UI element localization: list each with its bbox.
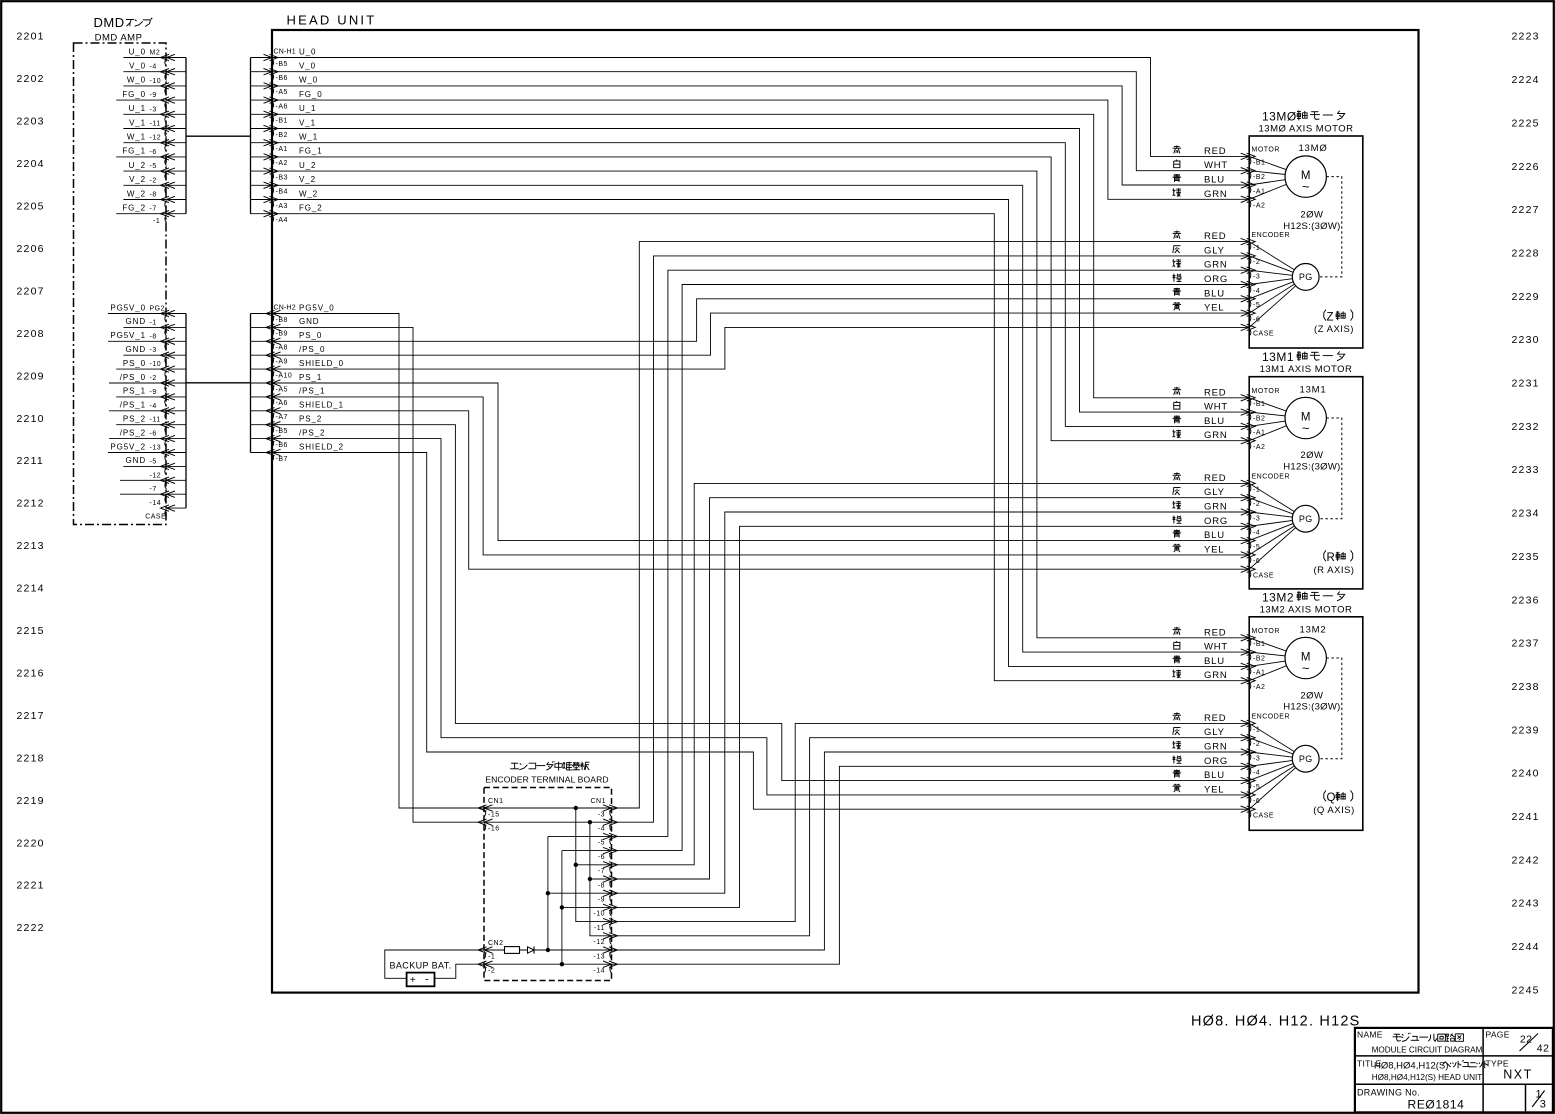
svg-text:-12: -12	[593, 939, 605, 946]
svg-text:FG_0: FG_0	[122, 90, 146, 99]
svg-text:-1: -1	[153, 218, 160, 225]
svg-text:-: -	[425, 973, 429, 985]
wire colour labels MOTOR 13M2	[1173, 627, 1229, 681]
svg-text:H12S:(3ØW): H12S:(3ØW)	[1283, 462, 1340, 473]
wire terminal board CN1-4 to 13M0 encoder -2 GLY	[612, 256, 1250, 822]
wire terminal board CN1-5 to 13M0 encoder -3 GRN	[612, 270, 1250, 836]
svg-text:-3: -3	[1253, 755, 1260, 762]
svg-text:-B1: -B1	[1253, 641, 1265, 648]
svg-text:U_1: U_1	[299, 104, 316, 113]
wire FG_2 CN-H1 to 13M2 motor	[272, 214, 1249, 681]
svg-text:-A6: -A6	[276, 103, 288, 110]
svg-text:FG_2: FG_2	[122, 204, 146, 213]
svg-text:-B1: -B1	[1253, 401, 1265, 408]
svg-text:ENCODER: ENCODER	[1252, 714, 1291, 721]
svg-text:-1: -1	[150, 319, 157, 326]
dashed link M to PG 13M2	[1319, 658, 1342, 759]
svg-text:RED: RED	[1204, 627, 1226, 638]
svg-text:/PS_1: /PS_1	[120, 401, 146, 410]
title block table	[1355, 1028, 1553, 1113]
svg-text:-B4: -B4	[276, 189, 288, 196]
wire /PS_2 CN-H2 to 13M2 encoder -6 YEL	[272, 439, 1249, 795]
svg-text:-A2: -A2	[1253, 684, 1265, 691]
connector MOTOR pins 13M1	[1241, 388, 1280, 451]
svg-text:MODULE CIRCUIT DIAGRAM: MODULE CIRCUIT DIAGRAM	[1372, 1046, 1483, 1055]
svg-text:/PS_1: /PS_1	[299, 387, 325, 396]
wire PS_2 CN-H2 to 13M2 encoder -5 BLU	[272, 425, 1249, 781]
svg-text:-3: -3	[150, 347, 157, 354]
svg-text:-6: -6	[598, 854, 605, 861]
svg-text:WHT: WHT	[1204, 160, 1228, 171]
wire W_0 CN-H1 to 13M0 motor	[272, 86, 1249, 185]
svg-text:(Q AXIS): (Q AXIS)	[1313, 805, 1354, 816]
svg-text:-5: -5	[598, 840, 605, 847]
connector MOTOR pins 13M2	[1241, 628, 1280, 691]
svg-text:CASE: CASE	[145, 513, 166, 520]
axis label R AXIS	[1314, 550, 1355, 576]
svg-text:2221: 2221	[17, 880, 45, 892]
svg-text:2212: 2212	[17, 498, 45, 510]
svg-text:V_0: V_0	[129, 62, 146, 71]
connector ENCODER pins 13M2	[1241, 714, 1290, 820]
wire colour labels MOTOR 13M1	[1173, 387, 1229, 441]
motor unit 13M2 (Q AXIS)	[1249, 590, 1363, 830]
HEAD UNIT enclosure	[272, 13, 1419, 993]
svg-text:-A1: -A1	[1253, 188, 1265, 195]
svg-text:2213: 2213	[17, 540, 45, 552]
svg-text:-B2: -B2	[1253, 415, 1265, 422]
wire /PS_1 CN-H2 to 13M1 encoder -6 YEL	[272, 397, 1249, 555]
svg-text:-4: -4	[1253, 770, 1260, 777]
svg-text:2243: 2243	[1512, 898, 1540, 910]
svg-text:YEL: YEL	[1204, 784, 1224, 795]
svg-text:W_2: W_2	[299, 189, 318, 198]
wire W_2 CN-H1 to 13M2 motor	[272, 200, 1249, 667]
svg-text:V_0: V_0	[299, 62, 316, 71]
svg-text:U_2: U_2	[129, 161, 146, 170]
svg-text:GRN: GRN	[1204, 670, 1228, 681]
terminal board internal bus PG5V (-15 to -3,-7,-11)	[484, 806, 612, 922]
svg-text:-A1: -A1	[1253, 670, 1265, 677]
svg-text:2207: 2207	[17, 285, 45, 297]
svg-text:-8: -8	[150, 192, 157, 199]
wire colour labels MOTOR 13M0	[1173, 145, 1229, 199]
svg-text:PG: PG	[1299, 514, 1313, 524]
svg-text:U_0: U_0	[299, 47, 316, 56]
svg-text:PG5V_0: PG5V_0	[299, 303, 335, 312]
svg-text:-10: -10	[150, 78, 162, 85]
wire battery+ to CN2-1	[385, 950, 484, 978]
motor winding circle 13M1 (M~)	[1249, 384, 1326, 440]
svg-text:-2: -2	[150, 375, 157, 382]
svg-text:-9: -9	[150, 389, 157, 396]
svg-text:2223: 2223	[1512, 31, 1540, 43]
svg-text:SHIELD_1: SHIELD_1	[299, 401, 344, 410]
resistor R on battery line	[505, 947, 520, 954]
wire /PS_0 CN-H2 to 13M0 encoder -6 YEL	[272, 313, 1249, 355]
wire terminal board CN1-10 to 13M1 encoder -4 ORG	[612, 526, 1250, 907]
svg-text:-6: -6	[150, 149, 157, 156]
svg-text:MOTOR: MOTOR	[1252, 628, 1280, 635]
svg-text:YEL: YEL	[1204, 544, 1224, 555]
axis label Z AXIS	[1314, 310, 1354, 336]
wire SHIELD_2 CN-H2 to 13M2 encoder CASE	[272, 453, 1249, 810]
svg-text:GLY: GLY	[1204, 245, 1225, 256]
wire PS_0 CN-H2 to 13M0 encoder -5 BLU	[272, 299, 1249, 342]
svg-text:-A4: -A4	[276, 217, 288, 224]
svg-text:-3: -3	[598, 811, 605, 818]
svg-text:2245: 2245	[1512, 984, 1540, 996]
svg-text:-2: -2	[1253, 501, 1260, 508]
svg-text:/PS_2: /PS_2	[299, 428, 325, 437]
svg-text:PG5V_0: PG5V_0	[110, 303, 146, 312]
title block TITLE cell	[1357, 1059, 1488, 1083]
svg-text:CN-H1: CN-H1	[274, 48, 296, 55]
svg-text:CN1: CN1	[590, 798, 606, 805]
svg-text:-3: -3	[1253, 515, 1260, 522]
svg-text:-6: -6	[1253, 798, 1260, 805]
svg-text:2203: 2203	[17, 116, 45, 128]
svg-text:~: ~	[1302, 421, 1310, 436]
connector CN-H2 on HEAD UNIT	[251, 303, 345, 463]
model list label H08 H04 H12 H12S	[1191, 1014, 1360, 1030]
svg-text:2226: 2226	[1512, 161, 1540, 173]
svg-text:-12: -12	[150, 135, 162, 142]
svg-text:-11: -11	[594, 925, 605, 932]
svg-text:RED: RED	[1204, 473, 1226, 484]
svg-text:2242: 2242	[1512, 854, 1540, 866]
diode D on battery line	[528, 946, 535, 953]
svg-text:2208: 2208	[17, 328, 45, 340]
svg-text:WHT: WHT	[1204, 402, 1228, 413]
terminal board connector CN2 pins -1 -2	[478, 940, 504, 974]
svg-text:BLU: BLU	[1204, 530, 1225, 541]
svg-text:-4: -4	[598, 826, 605, 833]
svg-text:-6: -6	[1253, 558, 1260, 565]
svg-text:PG: PG	[1299, 754, 1313, 764]
svg-text:SHIELD_0: SHIELD_0	[299, 359, 344, 368]
svg-text:2233: 2233	[1512, 464, 1540, 476]
svg-text:3: 3	[1540, 1099, 1546, 1111]
svg-text:ORG: ORG	[1204, 274, 1228, 285]
svg-text:-13: -13	[150, 445, 162, 452]
svg-text:GRN: GRN	[1204, 502, 1228, 513]
svg-text:(R AXIS): (R AXIS)	[1314, 565, 1355, 576]
title block DRAWING No cell	[1357, 1088, 1464, 1112]
wire V_1 CN-H1 to 13M1 motor	[272, 129, 1249, 413]
svg-text:PG2: PG2	[150, 306, 166, 313]
svg-text:YEL: YEL	[1204, 303, 1224, 314]
svg-text:GND: GND	[299, 317, 319, 326]
svg-text:2209: 2209	[17, 370, 45, 382]
svg-text:DMD: DMD	[94, 15, 125, 30]
encoder PG circle 13M1	[1249, 483, 1319, 569]
svg-text:2211: 2211	[17, 455, 44, 467]
svg-text:H12S:(3ØW): H12S:(3ØW)	[1283, 702, 1340, 713]
wire FG_1 CN-H1 to 13M1 motor	[272, 157, 1249, 441]
wire terminal board CN1-11 to 13M2 encoder -1 RED	[612, 723, 1250, 921]
svg-text:13M1: 13M1	[1300, 384, 1327, 395]
axis label Q AXIS	[1313, 790, 1354, 816]
svg-text:13MØ: 13MØ	[1298, 143, 1327, 154]
svg-text:-5: -5	[1253, 302, 1260, 309]
svg-text:-A6: -A6	[276, 400, 288, 407]
svg-text:HØ8,HØ4,H12(S): HØ8,HØ4,H12(S)	[1374, 1061, 1448, 1072]
svg-text:13M2 AXIS MOTOR: 13M2 AXIS MOTOR	[1260, 604, 1353, 615]
svg-text:BACKUP BAT.: BACKUP BAT.	[390, 960, 452, 970]
svg-text:H12S:(3ØW): H12S:(3ØW)	[1283, 221, 1340, 232]
svg-text:-8: -8	[598, 882, 605, 889]
svg-text:22: 22	[1520, 1034, 1533, 1046]
svg-text:-B2: -B2	[1253, 655, 1265, 662]
svg-text:-B6: -B6	[276, 75, 288, 82]
svg-text:-B5: -B5	[276, 428, 288, 435]
svg-text:CN2: CN2	[488, 940, 504, 947]
svg-text:PS_2: PS_2	[123, 415, 146, 424]
svg-text:13M2: 13M2	[1262, 590, 1294, 604]
backup battery BACKUP BAT.	[390, 960, 452, 986]
svg-text:DMD AMP: DMD AMP	[95, 33, 143, 44]
svg-text:-A10: -A10	[276, 372, 293, 379]
svg-text:-15: -15	[488, 811, 500, 818]
svg-text:2202: 2202	[17, 73, 45, 85]
svg-text:-12: -12	[150, 472, 162, 479]
svg-text:2235: 2235	[1512, 551, 1540, 563]
motor winding circle 13M0 (M~)	[1249, 143, 1327, 199]
svg-text:PAGE: PAGE	[1486, 1030, 1510, 1040]
terminal board CN2-1 line with resistor and diode to -13	[484, 949, 612, 951]
svg-text:-A9: -A9	[276, 359, 288, 366]
svg-text:BLU: BLU	[1204, 175, 1225, 186]
title block sheet number cell	[1532, 1089, 1546, 1111]
svg-text:-1: -1	[488, 953, 495, 960]
wire U_2 CN-H1 to 13M2 motor	[272, 171, 1249, 638]
svg-text:-B2: -B2	[276, 132, 288, 139]
cable bundle PG2 to CN-H2	[186, 314, 251, 509]
svg-text:-7: -7	[598, 868, 605, 875]
wire PS_1 CN-H2 to 13M1 encoder -5 BLU	[272, 383, 1249, 541]
title block PAGE cell	[1486, 1030, 1550, 1055]
wire terminal board CN1-12 to 13M2 encoder -2 GLY	[612, 738, 1250, 936]
title block TYPE cell	[1486, 1059, 1533, 1082]
svg-text:-A2: -A2	[276, 160, 288, 167]
wire battery- to CN2-2	[435, 964, 485, 978]
svg-text:2227: 2227	[1512, 204, 1540, 216]
title block NAME cell	[1357, 1030, 1483, 1055]
connector M2 on DMD AMP	[116, 47, 186, 225]
svg-text:-4: -4	[1253, 288, 1260, 295]
svg-text:-9: -9	[150, 92, 157, 99]
motor unit 13M0 (Z AXIS)	[1249, 110, 1363, 349]
svg-text:GLY: GLY	[1204, 487, 1225, 498]
wire colour labels ENCODER 13M2	[1173, 712, 1229, 795]
svg-text:13MØ AXIS MOTOR: 13MØ AXIS MOTOR	[1259, 124, 1354, 135]
svg-text:2214: 2214	[17, 583, 45, 595]
svg-text:/PS_0: /PS_0	[120, 373, 146, 382]
wire terminal board CN1-14 to 13M2 encoder -4 ORG	[612, 766, 1250, 964]
connector ENCODER pins 13M1	[1241, 474, 1290, 580]
svg-text:-B6: -B6	[276, 442, 288, 449]
svg-text:GRN: GRN	[1204, 189, 1228, 200]
svg-text:2224: 2224	[1512, 74, 1540, 86]
svg-text:2232: 2232	[1512, 421, 1540, 433]
connector MOTOR pins 13M0	[1241, 147, 1280, 210]
svg-text:Z: Z	[1327, 311, 1334, 323]
svg-text:2225: 2225	[1512, 117, 1540, 129]
svg-text:BLU: BLU	[1204, 288, 1225, 299]
svg-text:CASE: CASE	[1253, 573, 1274, 580]
motor winding circle 13M2 (M~)	[1249, 624, 1326, 680]
svg-text:-1: -1	[1253, 245, 1260, 252]
svg-text:BLU: BLU	[1204, 770, 1225, 781]
svg-text:2218: 2218	[17, 752, 45, 764]
svg-text:13M1 AXIS MOTOR: 13M1 AXIS MOTOR	[1260, 364, 1353, 375]
svg-text:-B1: -B1	[276, 118, 288, 125]
svg-text:2238: 2238	[1512, 681, 1540, 693]
svg-text:-9: -9	[598, 897, 605, 904]
svg-text:(Z AXIS): (Z AXIS)	[1314, 324, 1354, 335]
svg-text:ORG: ORG	[1204, 756, 1228, 767]
svg-text:PS_0: PS_0	[123, 359, 146, 368]
encoder PG circle 13M0	[1249, 242, 1319, 328]
svg-text:2234: 2234	[1512, 508, 1540, 520]
svg-text:U_1: U_1	[129, 104, 146, 113]
svg-text:-10: -10	[150, 361, 162, 368]
svg-text:-16: -16	[488, 826, 500, 833]
svg-text:CN-H2: CN-H2	[274, 304, 296, 311]
svg-text:-7: -7	[150, 486, 157, 493]
svg-text:-6: -6	[150, 431, 157, 438]
rating label 13M0	[1283, 210, 1340, 232]
svg-text:-B2: -B2	[1253, 174, 1265, 181]
svg-text:BLU: BLU	[1204, 416, 1225, 427]
svg-text:MOTOR: MOTOR	[1252, 147, 1280, 154]
svg-text:2ØW: 2ØW	[1300, 690, 1323, 701]
wire PG5V_0 CN-H2 to terminal board CN1-15	[272, 314, 484, 809]
svg-text:PS_1: PS_1	[123, 387, 146, 396]
svg-text:2236: 2236	[1512, 594, 1540, 606]
svg-text:V_1: V_1	[299, 118, 316, 127]
svg-text:PG5V_1: PG5V_1	[110, 331, 146, 340]
terminal board internal bus BAT+ (CN2-1 to -5,-9,-13)	[546, 836, 612, 952]
svg-text:GLY: GLY	[1204, 727, 1225, 738]
svg-text:-B3: -B3	[276, 174, 288, 181]
svg-text:-4: -4	[1253, 530, 1260, 537]
svg-text:-B5: -B5	[276, 61, 288, 68]
svg-text:GND: GND	[126, 317, 146, 326]
svg-text:HØ8. HØ4. H12. H12S: HØ8. HØ4. H12. H12S	[1191, 1014, 1360, 1030]
svg-text:-A7: -A7	[276, 414, 288, 421]
svg-text:V_2: V_2	[129, 175, 146, 184]
svg-text:W_0: W_0	[127, 76, 146, 85]
svg-text:2220: 2220	[17, 837, 45, 849]
svg-text:-2: -2	[488, 968, 495, 975]
wire terminal board CN1-3 to 13M0 encoder -1 RED	[612, 242, 1250, 808]
svg-text:2244: 2244	[1512, 941, 1540, 953]
svg-text:-2: -2	[150, 177, 157, 184]
svg-text:NXT: NXT	[1503, 1068, 1533, 1082]
svg-text:-14: -14	[593, 968, 605, 975]
svg-text:CASE: CASE	[1253, 331, 1274, 338]
svg-text:-B9: -B9	[276, 331, 288, 338]
svg-text:RED: RED	[1204, 231, 1226, 242]
wire V_2 CN-H1 to 13M2 motor	[272, 185, 1249, 652]
connector ENCODER pins 13M0	[1241, 232, 1290, 338]
svg-text:-B1: -B1	[1253, 160, 1265, 167]
wire V_0 CN-H1 to 13M0 motor	[272, 72, 1249, 171]
svg-text:PS_2: PS_2	[299, 415, 322, 424]
svg-text:-A1: -A1	[276, 146, 288, 153]
svg-text:-6: -6	[1253, 316, 1260, 323]
svg-text:REØ1814: REØ1814	[1408, 1098, 1465, 1112]
svg-text:42: 42	[1537, 1043, 1550, 1055]
svg-text:CN1: CN1	[488, 798, 504, 805]
svg-text:FG_1: FG_1	[299, 147, 323, 156]
svg-text:-4: -4	[150, 403, 157, 410]
svg-text:-4: -4	[150, 64, 157, 71]
svg-text:R: R	[1327, 552, 1335, 564]
svg-text:FG_2: FG_2	[299, 204, 323, 213]
svg-text:2222: 2222	[17, 922, 45, 934]
svg-text:2217: 2217	[17, 710, 45, 722]
encoder terminal board enclosure	[484, 761, 612, 980]
encoder PG circle 13M2	[1249, 723, 1319, 809]
svg-text:-3: -3	[150, 106, 157, 113]
svg-text:SHIELD_2: SHIELD_2	[299, 442, 344, 451]
svg-text:GRN: GRN	[1204, 742, 1228, 753]
dashed link M to PG 13M0	[1319, 177, 1342, 277]
svg-text:~: ~	[1302, 661, 1310, 676]
rating label 13M1	[1283, 450, 1340, 472]
terminal board CN2-2 line to -14	[484, 963, 612, 965]
svg-text:2215: 2215	[17, 625, 45, 637]
terminal board connector CN1 right pins -3..-14	[590, 798, 617, 974]
motor unit 13M1 (R AXIS)	[1249, 350, 1363, 589]
svg-text:-11: -11	[150, 417, 161, 424]
svg-text:FG_0: FG_0	[299, 90, 323, 99]
row reference numbers left 2201-2222	[17, 31, 45, 935]
svg-text:2ØW: 2ØW	[1300, 450, 1323, 461]
svg-text:2204: 2204	[17, 158, 45, 170]
svg-text:+: +	[410, 975, 416, 986]
svg-text:-A5: -A5	[276, 386, 288, 393]
wire terminal board CN1-8 to 13M1 encoder -2 GLY	[612, 498, 1250, 879]
wire terminal board CN1-6 to 13M0 encoder -4 ORG	[612, 285, 1250, 851]
wire GND CN-H2 to terminal board CN1-16	[272, 327, 484, 822]
svg-text:-A1: -A1	[1253, 430, 1265, 437]
svg-text:-A2: -A2	[1253, 203, 1265, 210]
svg-text:U_2: U_2	[299, 161, 316, 170]
svg-text:2219: 2219	[17, 795, 45, 807]
svg-text:2216: 2216	[17, 668, 45, 680]
svg-text:2239: 2239	[1512, 724, 1540, 736]
connector CN-H1 on HEAD UNIT	[251, 47, 323, 224]
svg-text:2231: 2231	[1512, 378, 1540, 390]
wire W_1 CN-H1 to 13M1 motor	[272, 143, 1249, 427]
svg-text:GND: GND	[126, 456, 146, 465]
wire terminal board CN1-13 to 13M2 encoder -3 GRN	[612, 752, 1250, 950]
svg-text:2230: 2230	[1512, 334, 1540, 346]
svg-text:DRAWING No.: DRAWING No.	[1357, 1088, 1420, 1098]
svg-text:MOTOR: MOTOR	[1252, 388, 1280, 395]
svg-text:PS_0: PS_0	[299, 331, 322, 340]
svg-text:2241: 2241	[1512, 811, 1540, 823]
svg-text:RED: RED	[1204, 713, 1226, 724]
wire terminal board CN1-9 to 13M1 encoder -3 GRN	[612, 512, 1250, 893]
terminal board internal bus BAT- (CN2-2 to -6,-10,-14)	[560, 851, 612, 967]
svg-text:2229: 2229	[1512, 291, 1540, 303]
svg-text:W_2: W_2	[127, 189, 146, 198]
